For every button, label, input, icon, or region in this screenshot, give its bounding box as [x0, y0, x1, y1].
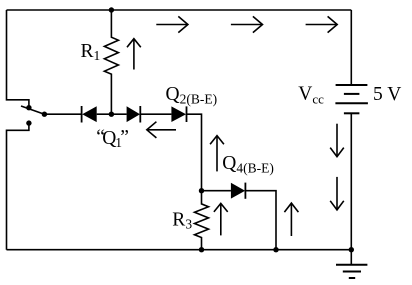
diode D2 bar [139, 106, 141, 123]
ground bar 1 [336, 264, 367, 266]
current arrow right 2 [231, 24, 262, 26]
wire diode row left [44, 113, 81, 115]
battery V1 plate short [344, 93, 360, 95]
diode Q2 bar [186, 106, 188, 122]
wire diode row right [140, 113, 171, 115]
current arrow right 3 [306, 24, 337, 26]
wire diode row middle [97, 113, 127, 115]
node dot R1 bottom [109, 112, 114, 117]
diode D2 triangle (pointing right) [127, 106, 140, 122]
wire left lower [7, 125, 29, 250]
current arrow up node B [216, 136, 218, 171]
current arrow down battery 2 [336, 177, 338, 209]
ground bar 2 [343, 271, 361, 273]
battery V1 plate long lower [335, 102, 368, 104]
diode Q4 bar [244, 183, 246, 199]
resistor R3 [195, 191, 209, 250]
ground bar 3 [349, 277, 355, 279]
switch SW1 blade [21, 106, 44, 114]
wire top [7, 9, 352, 11]
node dot switch common [42, 112, 47, 117]
node dot switch throw lower [26, 120, 31, 125]
svg-text:R1: R1 [81, 41, 101, 63]
svg-text:5 V: 5 V [373, 84, 401, 105]
current arrow right 1 [156, 24, 187, 26]
node dot R3 bottom [199, 247, 204, 252]
node dot switch throw upper [26, 105, 31, 110]
diode D1 triangle (pointing left) [82, 106, 97, 122]
node dot ground junction [349, 247, 354, 252]
battery V1 plate long top [336, 84, 368, 86]
resistor R1 [104, 10, 118, 114]
wire right upper [350, 10, 352, 85]
svg-text:Q4(B-E): Q4(B-E) [222, 153, 274, 176]
svg-text:R3: R3 [172, 209, 192, 231]
current arrow up beside R3 [220, 204, 222, 235]
wire left upper [7, 10, 29, 106]
diode D1 bar [81, 106, 83, 123]
current arrow down battery 1 [336, 124, 338, 156]
current arrow left under Q2 [147, 129, 176, 131]
wire Q2 to corner and down [187, 114, 202, 191]
svg-text:Vcc: Vcc [298, 84, 324, 107]
diode Q2 triangle (pointing right) [171, 106, 186, 122]
current arrow up beside R1 [133, 39, 135, 69]
battery V1 plate short bottom [344, 112, 360, 114]
wire bottom [7, 249, 352, 251]
svg-text:”: ” [120, 127, 129, 148]
wire right lower [350, 113, 352, 264]
current arrow up right branch [290, 204, 292, 236]
svg-text:Q2(B-E): Q2(B-E) [166, 84, 218, 107]
node dot right branch bottom [273, 247, 278, 252]
svg-text:Q: Q [102, 128, 116, 149]
node dot top R1 [109, 7, 114, 12]
wire Q4 row right and down [245, 191, 276, 250]
diode Q4 triangle (pointing right) [231, 183, 245, 199]
wire Q4 row left [202, 190, 231, 192]
node dot Q4 junction [199, 188, 204, 193]
